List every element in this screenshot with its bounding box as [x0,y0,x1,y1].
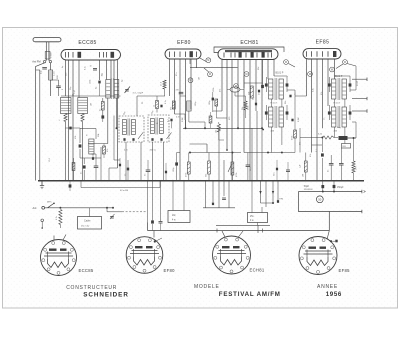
capacitor ant [42,68,47,70]
svg-text:50μF: 50μF [304,186,310,188]
capacitor c6 [96,81,101,96]
wires ECC85 pins [66,60,118,181]
FM dipole antenna [33,38,61,61]
label SCHNEIDER [83,292,129,299]
test point M9 [330,67,335,72]
capacitor fi caps [289,93,296,122]
IF transformer FI1b [265,105,289,132]
svg-text:27k: 27k [170,107,172,110]
test point M3 [188,78,193,83]
wire agc2 [219,122,224,153]
svg-text:M: M [309,74,311,76]
wires tuner bottom [66,122,83,181]
resistor ant [56,210,62,229]
coil aerial L1 [49,67,53,97]
capacitor det7 [119,158,121,181]
svg-text:4.7n: 4.7n [124,150,128,152]
svg-text:42 w FB: 42 w FB [120,190,129,192]
antenna terminals [32,60,51,64]
svg-text:1n: 1n [324,118,326,120]
svg-text:470k: 470k [292,136,294,140]
FM transformer T1 [106,79,119,100]
label FESTIVAL AM/FM [219,291,281,298]
socket EF85 [299,237,350,275]
wire ant row dashes [122,211,146,213]
coil choke [339,136,357,140]
svg-text:M: M [246,74,248,76]
svg-text:Reg: Reg [337,127,341,129]
test point M8 [343,60,348,65]
svg-text:39k: 39k [242,107,244,110]
capacitor h1 [151,181,154,231]
oscillator coil loop [230,87,240,92]
IF can 1 dashed box [119,116,144,142]
test point M4 [234,84,239,89]
resistor det [72,158,75,181]
electro caps [304,185,344,191]
svg-text:50: 50 [318,198,322,202]
wire grid rail [190,59,238,68]
svg-text:M: M [209,74,211,76]
wire right stub1 [352,78,367,82]
svg-text:47n: 47n [176,73,178,76]
labels det [75,133,100,139]
svg-text:50n: 50n [274,173,276,176]
wire hv drop [322,181,335,193]
svg-text:3.3 - 5.6pF: 3.3 - 5.6pF [133,93,144,95]
box 25x4w [248,213,268,223]
svg-text:M: M [285,62,287,64]
IF transformer FI2b [328,105,352,132]
svg-text:470k: 470k [248,106,250,110]
resistor r6 [154,96,159,113]
label osc1 [123,111,127,115]
wire screen rail [214,47,284,53]
wire heater rail [148,230,330,232]
svg-text:Cadre: Cadre [84,220,91,223]
capacitor det1 [79,128,82,158]
wires hp [173,181,184,211]
wire 96 rail mid [137,96,165,116]
labels misc mid [142,101,184,122]
capacitor det4 [91,154,98,181]
capacitor o4 [339,148,344,181]
HP output box [168,211,190,223]
wire ef85 scr [312,145,323,153]
svg-text:ECC85: ECC85 [79,268,94,273]
labels right mid [285,101,318,152]
svg-text:M: M [207,60,209,62]
svg-text:C 300: C 300 [51,52,53,58]
test point M1 [206,58,211,63]
resistor tone [342,144,351,149]
tube ECH81 [218,49,278,60]
svg-text:L aer: L aer [53,71,56,76]
svg-text:100k: 100k [90,80,92,84]
svg-text:1956: 1956 [326,291,342,298]
wire agc [219,149,227,151]
wire osc coil [227,90,246,119]
wire out right [348,122,357,138]
frame antenna box [78,217,102,230]
label EF85 [316,40,330,46]
svg-text:350/350V: 350/350V [304,189,314,191]
wires box2 [252,181,262,226]
capacitor ef80 g [176,90,184,94]
svg-text:M/Pu: M/Pu [47,202,52,204]
svg-text:4 w: 4 w [172,220,176,222]
wire fi1 top links [266,76,287,79]
svg-text:EF85: EF85 [316,40,330,46]
label osc2 [151,110,155,114]
resistor fi r [292,110,297,153]
resistor af1 [185,153,190,181]
svg-text:50: 50 [253,98,255,100]
svg-text:10k: 10k [215,130,217,133]
wire osc [244,76,263,88]
capacitor m1 [212,198,226,205]
svg-text:F/M: F/M [280,199,284,201]
svg-text:47k: 47k [321,92,323,95]
svg-text:CONSTRUCTEUR: CONSTRUCTEUR [66,285,117,291]
wires can links [272,66,357,110]
heater junction ticks [217,229,262,233]
svg-text:2.2k: 2.2k [313,88,315,92]
resistor ef80 [170,101,175,110]
wire ef80 g2 [175,114,186,120]
wire hv rail2 [299,192,362,214]
capacitor bus c [274,160,279,181]
svg-text:4.7n: 4.7n [176,117,180,119]
svg-text:2.2M: 2.2M [182,117,184,122]
svg-text:9.1k: 9.1k [85,66,87,70]
IF trimmer arrows [138,133,172,140]
svg-text:4.7k: 4.7k [56,216,58,220]
label ANNEE [317,284,338,290]
wire rail 152b [244,152,295,154]
capacitor o3 [328,155,334,181]
svg-text:150μF: 150μF [337,187,344,189]
wire right stub3 [352,109,367,112]
capacitor det10 [92,154,94,160]
wire antenna feed b [36,63,51,181]
label ECH81 [240,40,258,46]
capacitor bus b [165,163,167,181]
terminal pu [41,219,44,229]
circled 50 [316,196,323,203]
capacitor af0 [173,153,180,181]
wire fi2 top links [335,76,351,77]
coil det L4 [89,139,94,154]
svg-text:Ant FM: Ant FM [32,60,40,64]
capacitor osc1 [209,92,214,112]
svg-text:470k: 470k [185,173,187,177]
svg-text:5n: 5n [145,174,147,176]
svg-text:EF80: EF80 [164,268,176,273]
labels tuner1 [41,70,59,79]
svg-text:1M: 1M [91,103,93,106]
arrow drops [259,191,274,194]
svg-text:MODELE: MODELE [194,284,220,290]
IF transformer MF1 [123,119,136,141]
wire tuner top [61,95,121,97]
wires IF down [126,142,164,181]
IF transformer MF2 [151,118,164,141]
coil L5 [161,80,167,96]
switch S1 [45,202,55,208]
svg-text:SCHNEIDER: SCHNEIDER [83,292,129,299]
terminal Ant [33,206,45,210]
capacitor det6 [125,160,130,181]
resistor ech g [213,88,222,118]
label MODELE [194,284,220,290]
socket EF85 leads [327,231,338,243]
tube ECC85 [61,50,121,61]
wire heater riser [328,212,330,231]
labels misc left [62,65,93,106]
capacitor ech k [253,98,258,105]
svg-text:EF80: EF80 [177,40,191,46]
socket EF80 [126,237,175,274]
svg-text:100k: 100k [213,88,215,92]
wire out l [295,128,317,153]
capacitor det3 [81,158,86,181]
wire det5 [101,158,118,181]
test point M6 [244,72,249,77]
capacitor bus a [145,160,151,181]
test point M5 [284,60,289,65]
svg-text:1n: 1n [125,174,127,176]
potentiometer volume [228,153,238,181]
svg-text:1W: 1W [302,174,304,177]
capacitor r6b [160,100,167,107]
wire det2 [80,129,101,159]
wires can2 bottom [272,127,345,153]
capacitor pw0 [69,181,72,191]
wire ef85 in [323,104,329,106]
resistor osc2 [242,101,250,110]
wire rail 144 [190,144,208,153]
capacitor c5 [90,66,98,71]
socket ECC85 leads [54,235,66,241]
resistor det9 [103,144,109,159]
svg-text:1n: 1n [295,93,297,95]
capacitor if out [170,117,180,129]
wires af downs [219,111,262,181]
trimmer capacitor [125,87,144,95]
test point M2 [208,72,213,77]
tube EF85 [303,49,341,59]
svg-text:47k: 47k [310,154,312,157]
coil ef80 k [187,101,197,111]
ground symbol [40,181,44,189]
svg-text:25x / 4w: 25x / 4w [81,226,90,228]
coil L2 [59,98,72,123]
wire rail 128 [183,127,263,129]
svg-text:1k: 1k [154,105,156,107]
wires ECH81 pins [222,60,274,181]
IF transformer FI2a [328,77,352,104]
labels out [300,127,341,157]
wire 225 rail [216,225,270,233]
osc resistor [248,86,253,98]
IF can 2 dashed box [148,115,169,142]
svg-text:ECH81: ECH81 [250,268,265,273]
wire osc grid [213,111,228,151]
resistor r1 [99,98,104,119]
wire rail 152 [189,152,241,154]
svg-text:ECC85: ECC85 [78,40,96,46]
socket ECH81 [213,236,265,274]
resistor osc4 [209,112,212,128]
labels fi2 [321,92,326,120]
svg-text:47k: 47k [219,89,221,92]
svg-text:455 kc: 455 kc [150,150,157,152]
wire hv rail [299,190,366,193]
svg-text:39k: 39k [206,174,208,177]
labels b1 [276,72,343,79]
svg-text:ANNEE: ANNEE [317,284,338,290]
wire heater corner [147,181,149,231]
resistor o2 [302,153,307,181]
wires cadre links [90,207,123,217]
socket ECH81 leads [222,231,243,238]
resistor osc3 [215,124,220,133]
svg-text:61ΩP: 61ΩP [357,80,359,86]
svg-text:50n: 50n [250,168,252,171]
svg-text:M: M [344,62,346,64]
svg-text:Ant: Ant [33,206,37,210]
test point M7 [308,72,313,77]
resistor out h [317,134,338,140]
label C1-4 [71,89,77,96]
wire tp links [199,58,356,72]
label ECC85 [78,40,96,46]
IF transformer FI1a [265,77,289,104]
svg-text:B101 P: B101 P [276,72,284,75]
coil L3 [78,98,88,122]
svg-text:2.2M: 2.2M [298,117,300,122]
svg-text:M: M [331,69,333,71]
svg-text:EF85: EF85 [339,268,351,273]
capacitor h2 [159,181,163,231]
svg-text:4 w: 4 w [250,220,254,222]
capacitor c2 [50,80,60,96]
wire antenna feed [36,63,45,181]
svg-text:ECH81: ECH81 [240,40,258,46]
svg-text:4n: 4n [328,170,330,172]
junction osc [262,129,264,131]
labels speckle [49,66,359,168]
socket ECC85 [41,240,94,276]
svg-text:FESTIVAL AM/FM: FESTIVAL AM/FM [219,291,281,298]
wires EF85 pins [307,59,335,181]
wire right stub2 [352,97,367,100]
resistor af2 [206,153,211,181]
ground bus [38,180,364,182]
wire ef80 scr [180,92,186,128]
wire mid rail 207 [203,207,235,209]
capacitor af3 [246,153,252,181]
labels t1 [102,72,124,82]
label EF80 [177,40,191,46]
svg-text:1M: 1M [199,77,201,80]
label 42w [120,190,129,192]
osc caps [258,60,264,96]
wire det8 [103,116,120,161]
svg-text:4.7n: 4.7n [165,100,167,104]
wire 187 rail [81,181,160,188]
wire ef80 k2 [189,111,205,128]
svg-text:470k: 470k [236,173,238,177]
label 1956 [326,291,342,298]
svg-text:22k: 22k [285,101,287,104]
label CONSTRUCTEUR [66,285,117,291]
svg-text:20k: 20k [258,67,260,70]
wires EF80 pins [170,59,197,181]
wire ef85 g2 [295,96,307,97]
capacitor tun1 [66,127,81,130]
wires mid drops [206,181,230,208]
trimmer pu [110,214,115,219]
wire ant row [45,207,113,209]
svg-text:B101 P: B101 P [335,75,343,78]
resistor o5 [352,137,358,181]
label 455 [124,150,157,152]
tube EF80 [165,49,201,59]
socket EF80 leads [154,231,162,243]
capacitor o1 [321,137,324,181]
wire t1 sec [88,98,118,144]
wires ech pin drops [261,181,284,207]
svg-text:47k: 47k [107,149,109,152]
capacitor bus d [286,162,290,181]
